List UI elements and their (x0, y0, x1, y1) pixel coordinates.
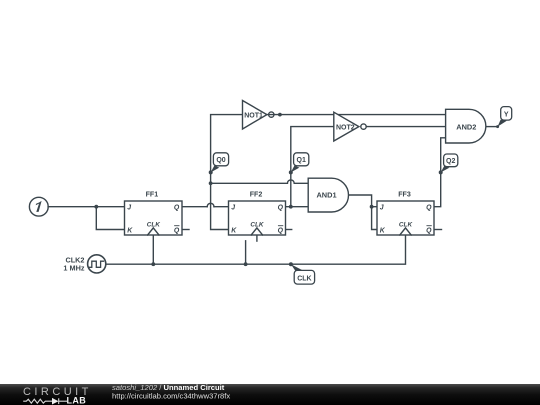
node 1 terminal (29, 197, 48, 216)
svg-text:NOT2: NOT2 (336, 124, 355, 131)
wire CLK bus from CLK2 to FF3 clock (105, 235, 406, 264)
logo diode triangle (52, 398, 59, 405)
label flag Q2 (439, 154, 458, 174)
gate AND1 (308, 178, 348, 212)
svg-text:CLK: CLK (250, 221, 264, 228)
wire floating stub near FF2 clock (245, 241, 247, 264)
wire NOT2 output to AND2 input2 (366, 126, 445, 128)
svg-text:AND2: AND2 (456, 122, 476, 131)
junction FF1 clock on bus (151, 262, 155, 266)
label flag Q1 (289, 153, 309, 175)
wire junction to FF1 J (96, 206, 124, 208)
label flag Q0 (209, 153, 229, 175)
svg-text:http://circuitlab.com/c34thww3: http://circuitlab.com/c34thww37r8fx (112, 392, 230, 401)
wire AND1 output to FF3 J (349, 195, 377, 207)
junction on NOT1 output (278, 113, 282, 117)
wire FF3 Q up to AND2 input3 (net Q2) (434, 138, 446, 207)
wire AND2 output to Y (486, 126, 498, 128)
flip-flop FF1 (125, 190, 183, 235)
wire FF1 Q to FF2 J with hop over Q0 (182, 206, 229, 208)
op NOT2 gate (334, 112, 366, 141)
svg-text:Q: Q (278, 227, 284, 234)
svg-text:FF1: FF1 (146, 190, 159, 198)
footer bar (0, 384, 540, 405)
wire Q0 to AND1 input1 with hop over Q1 (211, 182, 309, 184)
wire FF2 Q to AND1 input2 (286, 206, 309, 208)
wire FF3 J junction down to FF3 K (372, 207, 377, 230)
op NOT1 gate (243, 101, 274, 130)
svg-text:FF2: FF2 (250, 190, 263, 198)
svg-text:satoshi_1202 / Unnamed Circuit: satoshi_1202 / Unnamed Circuit (112, 383, 225, 392)
flip-flop FF2 (229, 190, 286, 235)
svg-text:Q: Q (174, 205, 180, 212)
junction FF2 Q / Q1 (289, 205, 293, 209)
svg-text:Q: Q (278, 205, 284, 212)
wire hop arc (207, 203, 214, 206)
label flag CLK (289, 262, 315, 284)
svg-text:J: J (380, 205, 384, 212)
wire net Q0 vertical: NOT1 input down to FF2 K (211, 115, 243, 230)
wire net Q1 up to NOT2 input (291, 127, 334, 207)
wire junction down to FF1 K (96, 207, 124, 230)
svg-text:Q: Q (426, 227, 432, 234)
stub FF2 Qbar (286, 229, 292, 231)
svg-text:Q: Q (174, 227, 180, 234)
svg-text:Y: Y (504, 111, 509, 118)
svg-text:CLK: CLK (297, 275, 311, 282)
junction FF3 J (370, 205, 374, 209)
junction node1 (94, 205, 98, 209)
svg-text:LAB: LAB (67, 396, 87, 405)
source CLK2 1 MHz (63, 255, 105, 273)
svg-text:Q0: Q0 (216, 157, 225, 164)
label flag Y (496, 107, 512, 129)
svg-text:FF3: FF3 (398, 190, 411, 198)
wire hop arc 2 (287, 180, 294, 183)
wire FF1 clock drop (152, 235, 154, 264)
svg-text:NOT1: NOT1 (244, 112, 263, 119)
svg-text:1 MHz: 1 MHz (63, 264, 84, 273)
logo resistor zigzag and diode (23, 398, 67, 404)
svg-text:Q2: Q2 (446, 158, 455, 165)
svg-text:AND1: AND1 (316, 191, 336, 200)
svg-text:CLK: CLK (147, 221, 161, 228)
stub FF3 Qbar (434, 229, 442, 231)
svg-text:J: J (231, 205, 235, 212)
wire NOT1 output to AND2 input1 (267, 114, 446, 116)
gate AND2 (446, 109, 486, 143)
wire node1 to junction (48, 206, 96, 208)
stub FF2 clock (256, 235, 258, 241)
svg-text:J: J (127, 205, 131, 212)
svg-text:Q1: Q1 (297, 157, 306, 164)
stub FF1 Qbar (182, 229, 189, 231)
flip-flop FF3 (377, 190, 434, 235)
svg-text:Q: Q (426, 205, 432, 212)
junction floating stub on bus (244, 262, 248, 266)
svg-text:CLK: CLK (399, 221, 413, 228)
junction Q0 to AND1 line (209, 181, 213, 185)
